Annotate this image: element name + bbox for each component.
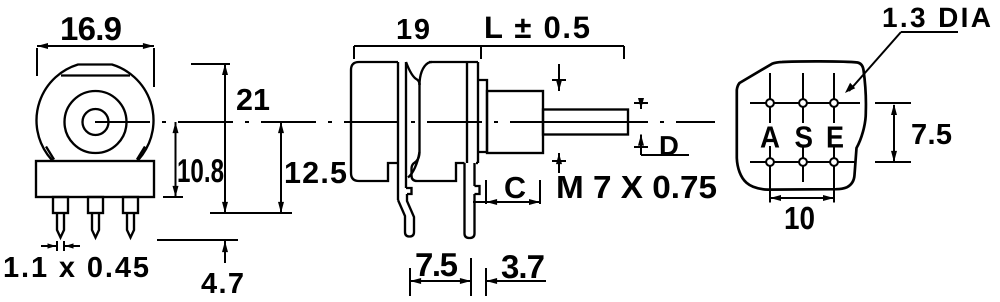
svg-text:C: C [504, 171, 526, 205]
svg-text:1.1 x 0.45: 1.1 x 0.45 [3, 252, 149, 284]
svg-text:7.5: 7.5 [911, 119, 952, 151]
svg-text:16.9: 16.9 [60, 10, 122, 47]
svg-text:4.7: 4.7 [201, 268, 244, 300]
svg-text:10.8: 10.8 [177, 152, 224, 189]
svg-text:7.5: 7.5 [415, 246, 458, 283]
svg-text:3.7: 3.7 [501, 248, 545, 285]
svg-text:D: D [659, 130, 679, 161]
svg-text:19: 19 [396, 14, 430, 46]
svg-text:S: S [795, 121, 814, 155]
svg-text:A: A [760, 121, 780, 155]
svg-text:21: 21 [236, 83, 270, 117]
svg-text:10: 10 [784, 200, 815, 236]
svg-text:L ± 0.5: L ± 0.5 [484, 10, 590, 45]
svg-text:E: E [826, 121, 844, 155]
svg-text:12.5: 12.5 [284, 156, 347, 190]
svg-text:M 7 X 0.75: M 7 X 0.75 [556, 169, 717, 205]
